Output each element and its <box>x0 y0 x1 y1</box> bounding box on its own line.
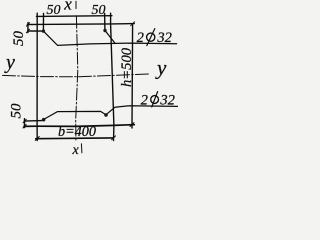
svg-text:32: 32 <box>159 92 175 108</box>
svg-text:50: 50 <box>11 31 27 47</box>
svg-text:50: 50 <box>92 3 106 18</box>
dim 50 top-left: dimension line <box>27 23 29 33</box>
section outline: bottom edge with extensions (thick) <box>24 125 134 127</box>
centerline x-axis main (dash-dot) <box>76 16 78 141</box>
centerline x-axis top dash <box>75 1 77 8</box>
rebar dot top-right <box>103 29 106 32</box>
svg-text:b=400: b=400 <box>58 124 96 140</box>
svg-text:2: 2 <box>137 30 144 46</box>
svg-text:50: 50 <box>47 3 61 18</box>
diameter symbol top label <box>147 33 155 41</box>
leader line top bars to label <box>44 32 176 46</box>
section outline: top edge with extensions <box>27 23 134 26</box>
rebar dot bottom-left <box>42 118 46 122</box>
dim 50 bottom-left: tick top <box>23 119 26 123</box>
svg-text:50: 50 <box>8 103 24 119</box>
section outline: left edge with extensions <box>36 13 38 140</box>
dim h=500: dimension line <box>131 24 134 128</box>
leader branch from top-right dot <box>106 31 115 43</box>
svg-text:2: 2 <box>141 92 148 108</box>
dim b=400: tick right <box>112 136 116 140</box>
dim 50 top-left: tick top <box>26 23 29 27</box>
section outline: right edge with extensions <box>111 13 114 140</box>
dim h=500: tick bottom <box>130 123 134 127</box>
dim 50 bottom-left: tick bottom <box>23 125 26 129</box>
centerline x-axis bottom dash <box>80 144 83 153</box>
svg-text:32: 32 <box>156 30 172 46</box>
rebar dot bottom-right <box>104 113 108 117</box>
diameter symbol bottom label <box>151 96 159 104</box>
dim 50 bottom-left: dimension line <box>24 119 26 128</box>
svg-text:x: x <box>63 0 72 14</box>
extension left bar down to dot <box>42 14 44 30</box>
centerline y-axis (dash-dot) <box>3 74 151 77</box>
svg-text:y: y <box>155 55 167 79</box>
dim 50 top-left: tick bottom <box>26 29 29 33</box>
dim 50 top-left: bar level extension <box>28 30 43 32</box>
dim b=400: dimension line <box>36 137 113 140</box>
svg-text:y: y <box>4 51 15 73</box>
extension right bar down to dot <box>104 14 106 30</box>
svg-text:h=500: h=500 <box>119 47 135 87</box>
rebar dot top-left <box>42 29 45 32</box>
top dimension line <box>36 15 112 18</box>
dim h=500: tick top <box>131 22 135 26</box>
leader line bottom bars to label <box>44 111 105 119</box>
svg-text:x: x <box>72 143 80 157</box>
dim 50 bottom-left: bar level extension <box>24 120 42 123</box>
dim b=400: tick left <box>35 137 39 141</box>
leader bottom continuation to label <box>107 106 178 115</box>
